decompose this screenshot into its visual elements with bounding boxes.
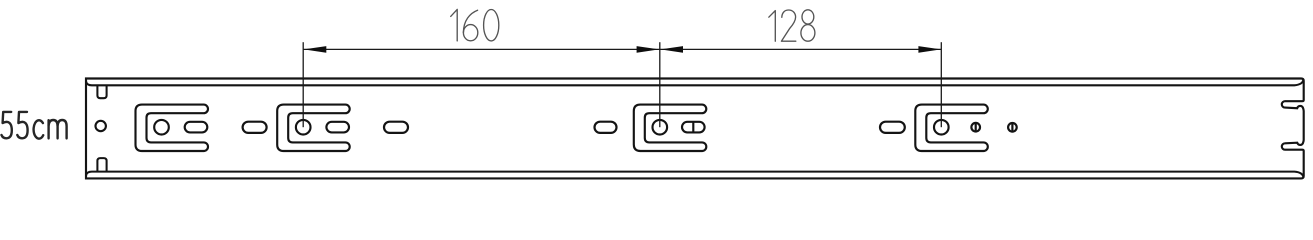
front small hole (96, 121, 106, 131)
oval hole C (595, 122, 617, 133)
rivet right (1008, 123, 1017, 132)
extension line at S3 (659, 42, 661, 127)
top bent tab (97, 85, 106, 98)
S1 pilot hole (154, 120, 169, 135)
rail outer profile with rear hook notches (86, 79, 1304, 179)
mounting slot S1 outline (136, 105, 208, 151)
S3 pilot hole (653, 120, 668, 135)
oval hole B (384, 122, 408, 133)
dimension text 128 (769, 10, 815, 41)
S2 pilot hole (296, 120, 311, 135)
S3 oval divider line (692, 122, 694, 133)
S2 oval slot (326, 122, 349, 133)
extension line at S4 (940, 42, 942, 127)
extension line at S2 (302, 42, 304, 127)
arrow left of 160 (304, 46, 327, 53)
dimension line 128 (660, 48, 942, 50)
oval hole D (880, 122, 905, 133)
mounting slot S3 outline (634, 105, 706, 151)
dimension line 160 (303, 48, 660, 50)
arrow right of 160 (637, 46, 660, 53)
S1 oval slot (185, 122, 208, 133)
dimension text 160 (451, 9, 499, 41)
mounting slot S4 outline (915, 105, 987, 151)
mounting slot S2 outline (277, 105, 349, 151)
rail inner top fold line (86, 79, 1304, 85)
oval hole A (243, 122, 267, 133)
S3 oval slot with divider (682, 122, 705, 133)
rail inner bottom fold line (86, 172, 1304, 178)
length label 55cm (2, 112, 67, 139)
bottom bent tab (97, 158, 106, 172)
arrow left of 128 (661, 46, 684, 53)
rivet in S4 (971, 123, 980, 132)
S4 pilot hole (934, 120, 949, 135)
arrow right of 128 (918, 46, 941, 53)
